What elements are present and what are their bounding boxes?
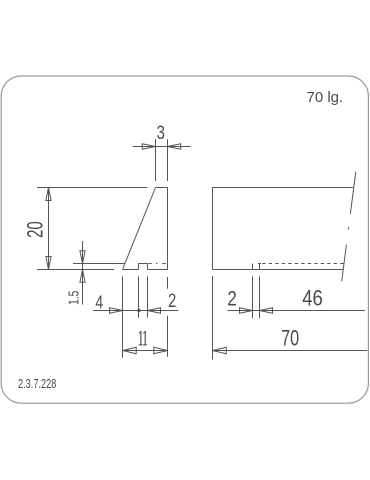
dim 3: left arrow	[142, 144, 155, 150]
svg-text:70 lg.: 70 lg.	[307, 89, 344, 106]
border frame	[1, 76, 368, 403]
dim 1.5: upper arrow	[80, 251, 85, 264]
wedge bottom edge right of slot	[148, 269, 168, 271]
dim 3: right arrow	[168, 144, 181, 150]
svg-text:46: 46	[302, 286, 323, 311]
dim 20: top extension line	[37, 187, 147, 189]
svg-text:2: 2	[168, 289, 176, 312]
slot wall right with cap	[258, 264, 261, 270]
dim 70: arrow	[213, 347, 227, 353]
svg-text:2.3.7.228: 2.3.7.228	[18, 378, 56, 392]
dim 4-2: dimension line	[93, 310, 178, 312]
dim 3: extension lines	[156, 139, 168, 181]
lower extension line A (slant foot)	[122, 276, 124, 357]
wedge top flat edge	[156, 187, 168, 189]
top edge	[213, 187, 353, 189]
dim 4-2: dot terminator	[137, 309, 140, 312]
lower extension line C (slot right)	[147, 276, 149, 317]
dim 70: dimension line	[213, 350, 368, 352]
dash-dot line at foot level	[149, 263, 166, 265]
dim 11: dimension line	[123, 350, 168, 352]
svg-text:1.5: 1.5	[64, 291, 82, 305]
hidden foot line (dashed)	[262, 263, 344, 265]
slot wall left	[252, 264, 254, 270]
right view: left extension line	[212, 276, 214, 360]
foot top edge	[73, 263, 125, 265]
lower extension line D (right edge, broken by text 2)	[167, 277, 169, 357]
right view: slot extension lines	[253, 276, 260, 318]
dim 1.5: dimension line	[82, 241, 84, 305]
break line lower segment	[342, 245, 347, 282]
dim 2 (right view): arrow	[240, 308, 253, 314]
dim 20: top arrow	[46, 188, 51, 201]
break line upper segment	[350, 172, 356, 215]
wedge bottom edge left of slot	[123, 269, 139, 271]
dim 2-46: dimension line	[228, 310, 365, 312]
dim 11: left arrow	[123, 347, 137, 353]
lower extension line B (slot left)	[138, 276, 140, 317]
dim 20/1.5: bottom extension line	[37, 269, 114, 271]
bottom edge	[213, 269, 344, 271]
svg-text:3: 3	[157, 122, 165, 143]
wedge right edge	[167, 188, 169, 270]
dim 20: dimension line	[48, 188, 50, 270]
break line dot	[347, 227, 349, 229]
dim 1.5: lower arrow	[80, 270, 85, 283]
left edge	[212, 188, 214, 270]
svg-text:20: 20	[23, 221, 48, 238]
dim 11: text	[139, 332, 147, 345]
dim 3: dimension line	[133, 146, 191, 148]
svg-text:2: 2	[227, 288, 237, 311]
svg-text:70: 70	[281, 326, 299, 351]
wedge slant (hypotenuse)	[123, 188, 156, 270]
dim 20: bottom arrow	[46, 257, 51, 270]
dim 4: arrow	[110, 308, 123, 314]
slot in bottom	[139, 264, 148, 270]
svg-text:4: 4	[95, 293, 103, 313]
dim 2: arrow	[148, 308, 161, 314]
dim 11: right arrow	[154, 347, 168, 353]
dim 46: arrow	[260, 308, 273, 314]
